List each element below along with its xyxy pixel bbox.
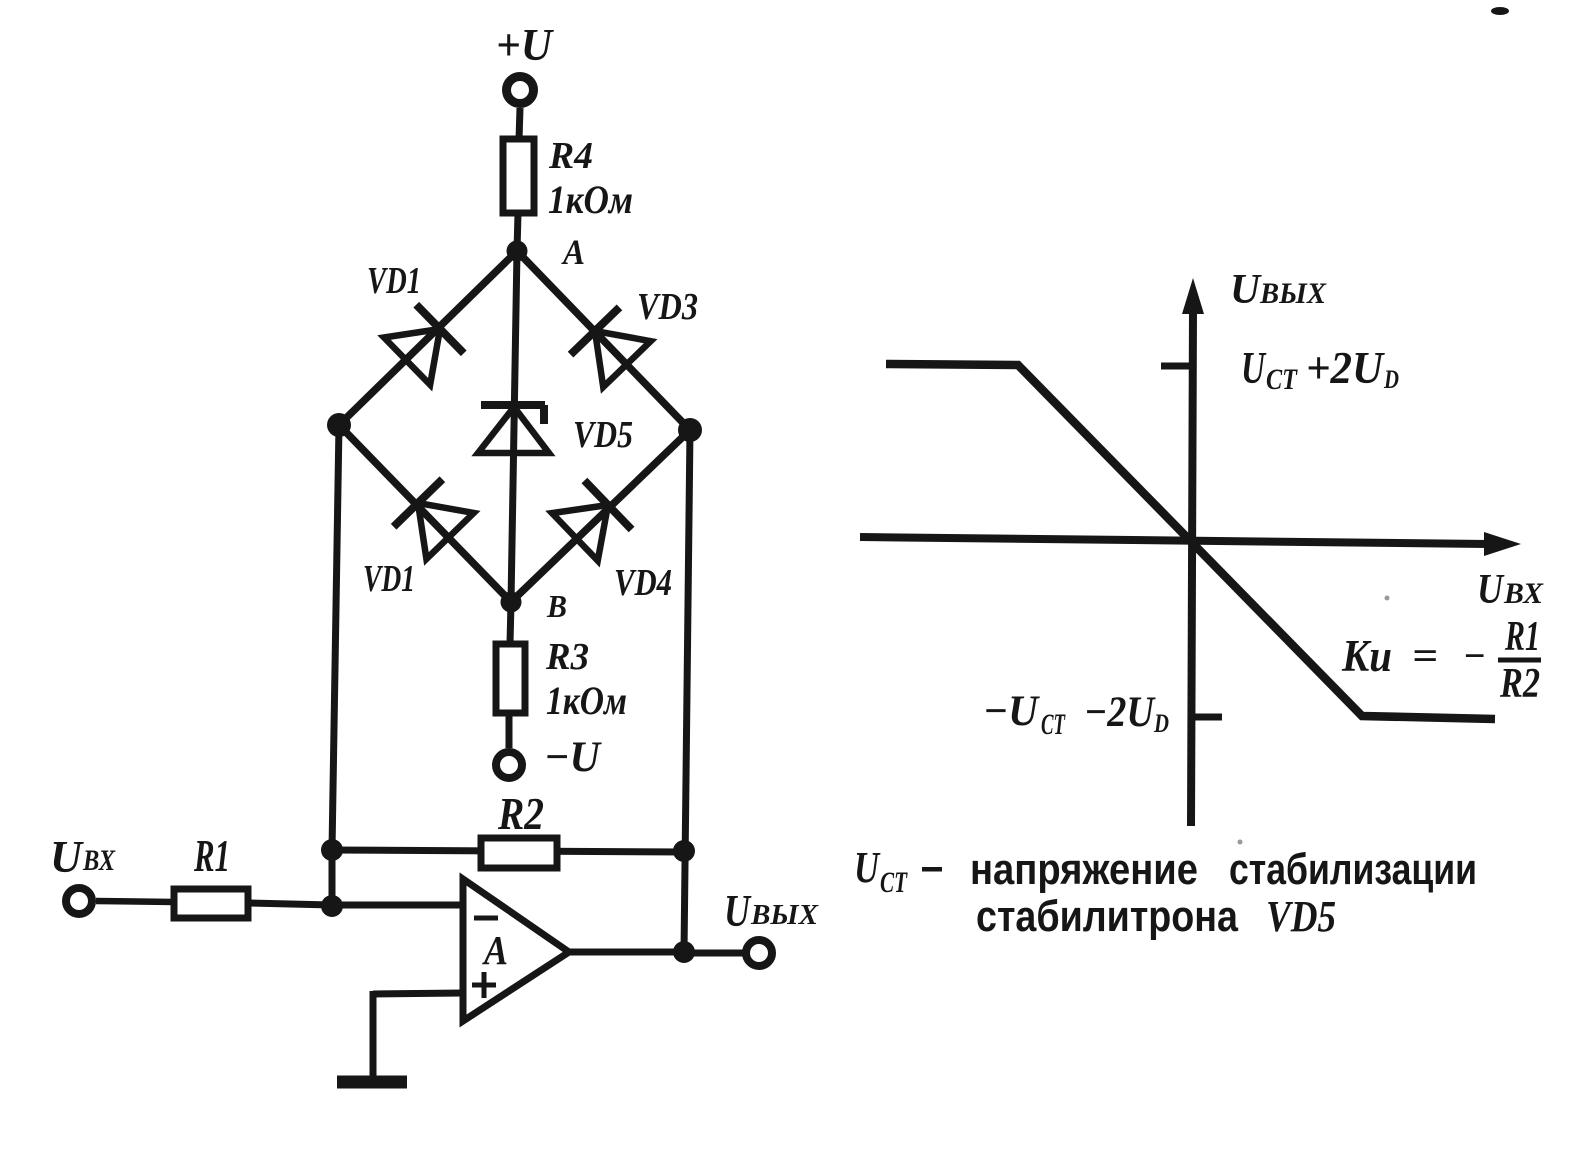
resistor R1 [174,830,248,918]
wire op-amp + input to ground [373,991,463,1076]
label -Ust-2Ud [983,688,1169,741]
feedback rail R2 [332,850,684,852]
label Uvyx [724,886,819,936]
wire left node to B [339,425,511,602]
graph label Uvx [1477,567,1544,613]
svg-text:ВХ: ВХ [82,844,116,877]
svg-text:R2: R2 [497,788,544,839]
node B [501,588,568,624]
svg-text:VD5: VD5 [1266,892,1336,941]
graph horizontal axis Uvx [860,532,1521,556]
svg-text:1кОм: 1кОм [548,177,633,222]
wire terminal to R1 [96,901,174,902]
svg-text:−2U: −2U [1084,689,1156,736]
wire op-amp output [569,949,684,956]
wire junction down to inverting input rail [329,850,336,906]
node A [507,232,586,272]
graph label Uvyx [1230,267,1327,313]
resistor R4 1kOm [503,135,633,222]
label Ust+2Ud [1241,343,1399,396]
label Uvx [50,832,116,882]
svg-text:U: U [50,832,84,882]
diode VD1 (lower left, VD2) [394,479,475,559]
wire B to right node [511,430,690,602]
caption line 1 [854,843,1477,899]
svg-text:A: A [561,232,585,272]
svg-text:R3: R3 [545,636,589,678]
svg-text:R2: R2 [1499,661,1540,707]
junction R2 right [673,840,695,862]
tick Ust+2Ud [1161,363,1193,370]
wire junction to op-amp inverting input [332,902,463,909]
svg-text:VD1: VD1 [367,260,421,302]
svg-text:+U: +U [496,19,555,70]
terminal +U [496,19,555,104]
svg-text:−U: −U [983,688,1040,735]
fraction bar R1/R2 [1498,658,1541,663]
node left [327,413,351,437]
terminal Uvyx [746,940,772,966]
op-amp U1 [463,879,569,1021]
junction R2 left [321,839,343,861]
svg-text:VD4: VD4 [614,562,672,604]
svg-text:СТ: СТ [1041,708,1066,741]
tick -Ust-2Ud [1193,714,1222,721]
svg-text:U: U [1477,567,1505,613]
svg-text:ВЫХ: ВЫХ [1259,277,1327,310]
svg-text:R4: R4 [548,135,593,177]
svg-text:D: D [1153,709,1169,738]
svg-text:Ku: Ku [1341,631,1392,681]
svg-text:ВХ: ВХ [1503,577,1544,610]
wire R3 to -U [506,713,513,748]
svg-text:R1: R1 [1504,614,1540,660]
node right [678,418,702,442]
resistor R3 1kOm [496,636,627,723]
svg-text:−U: −U [544,734,602,781]
svg-text:+2U: +2U [1306,343,1385,393]
svg-text:стабилитрона: стабилитрона [976,892,1238,941]
terminal -U [496,734,602,781]
wire left node down to R2 rail [332,425,339,850]
svg-text:1кОм: 1кОм [546,678,627,723]
ground [337,1076,407,1089]
transfer curve [886,364,1495,719]
svg-text:VD5: VD5 [573,414,633,456]
wire R1 to junction [248,903,332,905]
svg-text:U: U [1241,343,1267,393]
svg-text:A: A [481,927,508,973]
svg-text:VD3: VD3 [637,286,698,328]
wire +U to R4 [519,108,520,140]
svg-text:СТ: СТ [1266,363,1298,396]
wire A to B (zener branch) [511,251,517,602]
graph vertical axis Uvyx [1182,278,1204,826]
svg-text:СТ: СТ [880,866,908,899]
wire output to terminal [684,950,744,957]
svg-text:напряжение: напряжение [970,845,1198,894]
diode VD3 (upper right) [571,307,652,387]
wire right node down to output [684,430,690,952]
svg-text:−: − [1463,633,1486,678]
wire B to R3 [510,602,511,644]
junction output [673,941,695,963]
svg-text:D: D [1383,365,1399,394]
junction inverting input [321,895,343,917]
svg-text:R1: R1 [193,830,230,881]
svg-text:B: B [546,588,567,624]
svg-text:U: U [854,843,881,892]
wire A to left node [339,251,517,425]
smudge top right [1491,7,1509,15]
wire A to right node [517,251,690,430]
diode VD4 (lower right) [551,481,631,562]
svg-text:U: U [1230,267,1263,313]
resistor R2 [481,788,557,868]
zener diode VD5 [478,405,633,456]
svg-text:VD1: VD1 [363,558,415,600]
label Ku = -R1/R2 [1341,614,1540,707]
caption line 2 [976,892,1336,941]
terminal Uvx [66,888,92,914]
svg-text:U: U [724,886,752,936]
svg-text:=: = [1412,633,1438,678]
diode VD1 (upper left) [383,305,463,386]
svg-text:стабилизации: стабилизации [1229,845,1477,894]
svg-text:ВЫХ: ВЫХ [750,900,819,931]
wire R4 to node A [517,213,518,251]
